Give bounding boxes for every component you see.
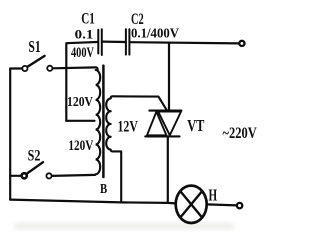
wire bottom rail [10, 200, 176, 204]
svg-text:0.1: 0.1 [75, 26, 94, 41]
capacitor C2 [126, 29, 129, 54]
wire C2 to right terminal [130, 42, 238, 43]
svg-text:~220V: ~220V [223, 125, 258, 142]
capacitor C1 [98, 29, 102, 55]
svg-text:C1: C1 [81, 11, 95, 28]
wire C1 to C2 [103, 40, 125, 43]
wire MT2 from top rail to triac [168, 43, 170, 110]
svg-text:H: H [209, 185, 218, 204]
transformer secondary winding 12V + gate wire to VT [106, 96, 167, 202]
transformer core [102, 66, 105, 177]
svg-text:0.1/400V: 0.1/400V [131, 27, 179, 42]
wire triac to bottom rail [167, 138, 169, 203]
svg-text:B: B [100, 182, 107, 197]
switch S2 [10, 162, 95, 178]
svg-text:VT: VT [187, 116, 205, 135]
svg-text:120V: 120V [68, 138, 93, 154]
svg-text:S1: S1 [28, 37, 40, 56]
svg-text:S2: S2 [28, 148, 41, 165]
svg-text:C2: C2 [131, 11, 144, 28]
wire left rail [9, 69, 11, 200]
triac VT [145, 111, 181, 137]
transformer B primary winding (two 120V sections) [95, 67, 100, 174]
svg-text:400V: 400V [71, 45, 94, 61]
terminal top-right [239, 41, 244, 46]
wire tap to primary winding [66, 120, 94, 122]
lamp H [176, 186, 207, 223]
scan shadow streak (bottom) [14, 223, 234, 229]
svg-text:12V: 12V [118, 119, 139, 136]
terminal bottom-right [237, 203, 242, 208]
wire top-left corner: junction to C1 [66, 42, 97, 121]
wire lamp to right terminal [207, 204, 237, 205]
switch S1 [10, 56, 96, 71]
svg-text:120V: 120V [67, 95, 93, 110]
